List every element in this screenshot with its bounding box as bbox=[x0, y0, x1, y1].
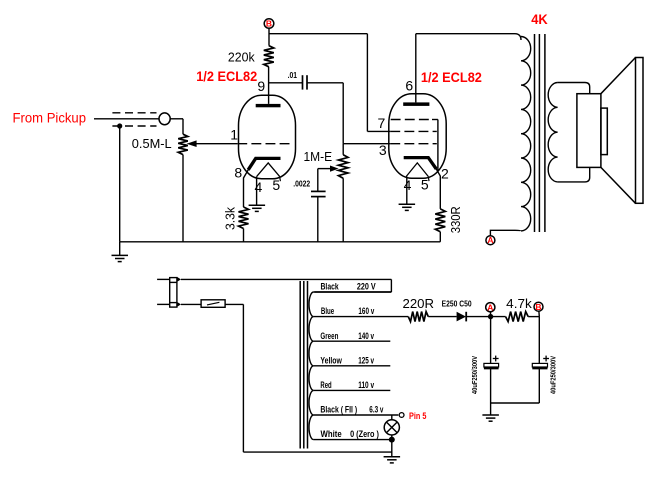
svg-text:Red: Red bbox=[320, 380, 331, 391]
svg-text:220 V: 220 V bbox=[357, 282, 376, 293]
label .0022 bbox=[293, 179, 310, 189]
pin 9 label bbox=[257, 78, 265, 94]
label tap Blue 160 v bbox=[321, 306, 375, 317]
wire fuse lead bbox=[181, 303, 201, 305]
label C1 40uF bbox=[470, 356, 479, 394]
label tap Red 110 v bbox=[320, 380, 374, 391]
wire pin6 to transformer bbox=[416, 33, 515, 35]
heater pentode bbox=[406, 163, 428, 177]
shield dashed top bbox=[112, 112, 156, 114]
wire pot bottom lead bbox=[182, 155, 184, 242]
wire cap 0022 to rail bbox=[317, 197, 319, 242]
wire grid pin1 to wiper bbox=[187, 140, 238, 147]
node shield ground junction bbox=[117, 123, 122, 128]
wire mains neutral lead bbox=[157, 303, 170, 305]
svg-text:4: 4 bbox=[255, 179, 263, 195]
cathode bar pentode bbox=[404, 158, 437, 169]
svg-text:2: 2 bbox=[441, 165, 449, 181]
wire lamp to ground bbox=[391, 440, 393, 457]
ground input bbox=[112, 242, 129, 262]
label tap Black Fil 6.3v bbox=[320, 405, 383, 416]
wire C2 to rail bbox=[538, 368, 540, 403]
potentiometer 1M-E bbox=[338, 144, 348, 179]
wire cathode pin2 bbox=[436, 168, 440, 209]
ground heater pentode bbox=[399, 204, 416, 210]
wire pot top lead bbox=[182, 119, 184, 134]
label pin 7 bbox=[378, 115, 386, 131]
lamp pilot bbox=[384, 415, 399, 440]
label pin 1 bbox=[230, 127, 238, 143]
capacitor C1 40uF bbox=[484, 356, 499, 369]
label 220k bbox=[228, 49, 255, 64]
terminal pin5 circle bbox=[399, 413, 404, 418]
svg-text:1/2 ECL82: 1/2 ECL82 bbox=[421, 69, 482, 85]
shield dashed bottom bbox=[112, 125, 156, 127]
tube V1 pentode envelope bbox=[389, 94, 446, 178]
wire node B down bbox=[538, 317, 540, 364]
svg-text:4.7k: 4.7k bbox=[506, 296, 532, 311]
svg-text:0 (Zero ): 0 (Zero ) bbox=[350, 429, 379, 440]
wire wiper to cap 0022 bbox=[318, 166, 339, 192]
svg-text:0.5M-L: 0.5M-L bbox=[132, 136, 172, 151]
wire tap 160 v bbox=[314, 316, 409, 318]
wire rail to ground bbox=[490, 403, 492, 415]
label tap Yellow 125 v bbox=[320, 355, 374, 366]
node B plus terminal bbox=[264, 19, 274, 29]
svg-text:8: 8 bbox=[234, 165, 242, 181]
transformer T1 core bbox=[535, 34, 545, 232]
wire 220R to diode bbox=[428, 316, 456, 318]
wire secondary top bbox=[558, 83, 590, 94]
svg-text:5: 5 bbox=[272, 177, 280, 193]
wire 220V tap bbox=[315, 291, 392, 293]
svg-text:330R: 330R bbox=[448, 206, 463, 233]
svg-text:1: 1 bbox=[230, 127, 238, 143]
capacitor .01 bbox=[303, 75, 308, 89]
wire fuse to zero tap bbox=[225, 304, 392, 452]
svg-text:6.3 v: 6.3 v bbox=[369, 405, 384, 416]
svg-text:Blue: Blue bbox=[321, 306, 334, 317]
wire 4.7k to node B bbox=[528, 316, 539, 318]
wire secondary bottom bbox=[558, 167, 590, 182]
wire tap 6.3v bbox=[314, 414, 399, 416]
svg-text:White: White bbox=[321, 429, 342, 440]
svg-text:4K: 4K bbox=[531, 11, 548, 27]
svg-text:9: 9 bbox=[257, 78, 265, 94]
svg-text:40uF250/300V: 40uF250/300V bbox=[548, 356, 557, 394]
wire diode to node A bbox=[467, 316, 506, 318]
ground psu zero bbox=[384, 457, 401, 463]
label pin 2 bbox=[441, 165, 449, 181]
diode E250 C50 bbox=[457, 312, 467, 322]
svg-text:110 v: 110 v bbox=[358, 380, 374, 391]
svg-text:160 v: 160 v bbox=[358, 306, 374, 317]
svg-text:A: A bbox=[487, 302, 493, 312]
transformer T2 core bbox=[300, 281, 307, 449]
label pin 4 pentode bbox=[404, 177, 412, 193]
wire tap zero bbox=[314, 439, 392, 441]
grid g1 dashed bbox=[390, 143, 437, 145]
svg-text:A: A bbox=[487, 235, 493, 245]
wire ground rail bbox=[120, 241, 441, 243]
heater triode bbox=[257, 163, 280, 177]
svg-text:7: 7 bbox=[378, 115, 386, 131]
capacitor C2 40uF bbox=[532, 356, 549, 369]
resistor 330R bbox=[435, 209, 445, 232]
wire cathode to 3.3k bbox=[244, 169, 249, 207]
label pin 5 pentode bbox=[421, 177, 429, 193]
fuse F1 bbox=[201, 300, 225, 308]
wire tap 110 v bbox=[314, 389, 391, 391]
svg-text:B: B bbox=[535, 302, 541, 312]
wire B+ branch to g2 bbox=[269, 33, 368, 35]
connector J1 coax end bbox=[159, 113, 170, 125]
node A transformer bbox=[486, 235, 495, 245]
anode plate triode bbox=[256, 104, 281, 107]
speaker LS1 pole bbox=[601, 108, 607, 155]
label tap White zero bbox=[321, 429, 379, 440]
wire 3.3k to rail bbox=[243, 229, 245, 242]
wire cap to grid network bbox=[307, 83, 343, 144]
label C2 40uF bbox=[548, 356, 557, 394]
svg-text:B: B bbox=[266, 19, 272, 29]
svg-text:E250 C50: E250 C50 bbox=[442, 299, 472, 309]
wire B to 220k bbox=[268, 28, 270, 45]
label 330R bbox=[448, 206, 463, 233]
wire heater pin4 pentode bbox=[406, 177, 408, 204]
label 220R bbox=[403, 296, 435, 311]
node lamp junction bbox=[389, 437, 395, 443]
wire anode lead pin9 bbox=[268, 67, 270, 104]
label pin 6 bbox=[405, 78, 413, 94]
grid g3 dashed bbox=[391, 120, 438, 171]
label pin 4 triode bbox=[255, 179, 263, 195]
label 3.3k bbox=[222, 207, 237, 230]
label 0.5M-L bbox=[132, 136, 172, 151]
svg-text:Green: Green bbox=[320, 331, 338, 342]
svg-text:1M-E: 1M-E bbox=[304, 149, 333, 164]
wire to 1M-E and pin3 bbox=[343, 143, 390, 145]
speaker LS1 cone bbox=[601, 58, 643, 204]
svg-text:140 v: 140 v bbox=[358, 331, 374, 342]
svg-text:.0022: .0022 bbox=[293, 179, 310, 189]
resistor 220R bbox=[408, 312, 428, 322]
wire shield to ground rail bbox=[119, 126, 121, 242]
svg-text:3: 3 bbox=[379, 142, 387, 158]
svg-text:Black: Black bbox=[321, 282, 340, 293]
svg-text:3.3k: 3.3k bbox=[222, 207, 237, 230]
node A psu bbox=[486, 302, 495, 319]
label tap Green 140 v bbox=[320, 331, 374, 342]
cathode bar triode bbox=[248, 158, 280, 169]
wire tap 125 v bbox=[314, 365, 391, 367]
svg-text:1/2 ECL82: 1/2 ECL82 bbox=[196, 68, 257, 84]
label 1/2 ECL82 triode bbox=[196, 68, 257, 84]
label 4K bbox=[531, 11, 548, 27]
wire circle to pot bbox=[170, 118, 183, 120]
anode plate pentode bbox=[403, 102, 429, 106]
wire tap 220 V bbox=[314, 291, 392, 293]
svg-text:Black ( FIl ): Black ( FIl ) bbox=[320, 405, 357, 416]
tube V1 triode envelope bbox=[239, 95, 296, 179]
connector mains plug bbox=[170, 277, 181, 307]
wire 1M-E bottom bbox=[342, 178, 344, 242]
wire mains live lead bbox=[157, 278, 170, 280]
svg-text:220R: 220R bbox=[403, 296, 435, 311]
resistor 3.3k bbox=[239, 207, 249, 229]
wire g2 to B+ bbox=[367, 34, 390, 132]
label 4.7k bbox=[506, 296, 532, 311]
resistor 4.7k bbox=[506, 312, 529, 322]
label E250 C50 bbox=[442, 299, 472, 309]
transformer T1 primary bbox=[490, 34, 530, 236]
wire input center bbox=[94, 118, 159, 120]
label Pin 5 bbox=[409, 411, 427, 422]
svg-text:Pin 5: Pin 5 bbox=[409, 411, 427, 422]
grid dashed triode bbox=[237, 143, 290, 145]
resistor 220k bbox=[264, 46, 274, 67]
transformer T2 winding bbox=[309, 292, 314, 440]
svg-text:From Pickup: From Pickup bbox=[13, 109, 87, 125]
wire pin9 to cap bbox=[269, 82, 303, 84]
wire heater pin4 down bbox=[256, 177, 258, 205]
grid g2 dashed bbox=[390, 130, 437, 132]
svg-text:.01: .01 bbox=[288, 70, 298, 80]
wire tap 140 v bbox=[314, 340, 391, 342]
svg-text:4: 4 bbox=[404, 177, 412, 193]
label 1M-E bbox=[304, 149, 333, 164]
pin 5 stub triode bbox=[279, 177, 282, 182]
wire node A down bbox=[490, 317, 492, 364]
potentiometer 0.5M-L bbox=[178, 134, 188, 154]
label From Pickup bbox=[13, 109, 87, 125]
svg-text:40uF250/300V: 40uF250/300V bbox=[470, 356, 479, 394]
label pin 3 bbox=[379, 142, 387, 158]
speaker LS1 driver bbox=[577, 94, 601, 168]
label tap Black 220 V bbox=[321, 282, 377, 293]
svg-text:Yellow: Yellow bbox=[320, 355, 342, 366]
ground heater triode bbox=[249, 205, 266, 211]
ground psu caps bbox=[482, 415, 499, 421]
svg-text:125 v: 125 v bbox=[358, 355, 374, 366]
svg-text:5: 5 bbox=[421, 177, 429, 193]
transformer T1 secondary bbox=[548, 83, 557, 182]
wire anode pin6 bbox=[415, 34, 417, 103]
svg-text:6: 6 bbox=[405, 78, 413, 94]
wire mains live top bbox=[181, 279, 391, 292]
label 1/2 ECL82 pentode bbox=[421, 69, 482, 85]
label pin 5 triode bbox=[272, 177, 280, 193]
capacitor .0022 bbox=[311, 191, 326, 196]
node B psu bbox=[534, 302, 543, 317]
wire C1 to rail bbox=[490, 368, 492, 403]
label pin 8 bbox=[234, 165, 242, 181]
wire caps rail bbox=[491, 402, 540, 404]
pin 5 stub pentode bbox=[427, 177, 430, 182]
wire 330R to rail bbox=[439, 232, 441, 242]
svg-text:220k: 220k bbox=[228, 49, 255, 64]
label .01 bbox=[288, 70, 298, 80]
